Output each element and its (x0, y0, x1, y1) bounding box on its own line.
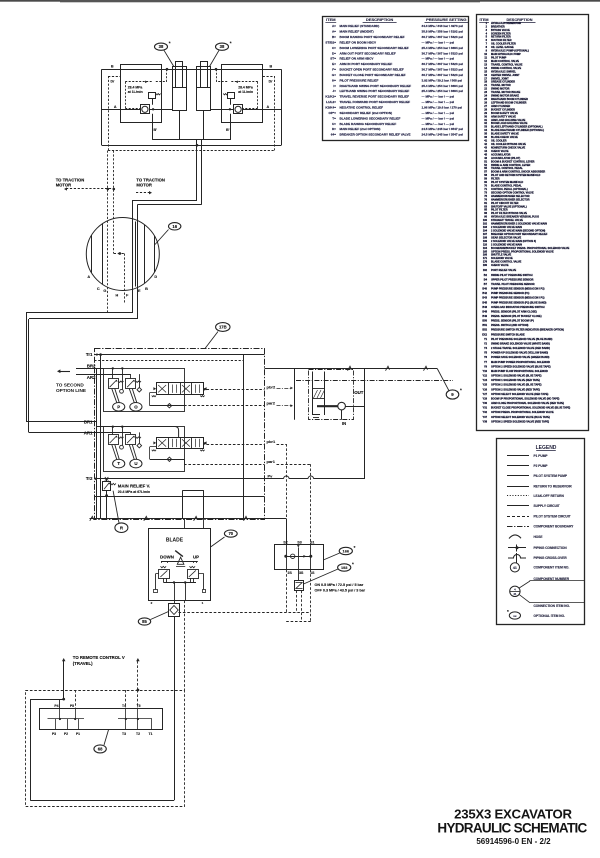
svg-text:SWING PILOT PRESSURE SWITCH: SWING PILOT PRESSURE SWITCH (491, 274, 533, 277)
svg-text:(TRAVEL): (TRAVEL) (73, 661, 93, 666)
svg-text:PIPING CROSS-OVER: PIPING CROSS-OVER (534, 556, 568, 560)
Pv supply wire (94, 478, 283, 480)
svg-text:RELIEF ON ARM HBCV: RELIEF ON ARM HBCV (340, 57, 375, 61)
svg-text:Y10: Y10 (483, 370, 488, 373)
svg-text:DOWN: DOWN (160, 554, 174, 559)
svg-text:TO SECOND: TO SECOND (56, 383, 84, 388)
svg-text:PILOT PRESSURE RELIEF: PILOT PRESSURE RELIEF (340, 78, 379, 82)
svg-text:41: 41 (513, 592, 517, 596)
left supply rails (100, 355, 102, 519)
svg-text:OPTION 1 SOLENOID VALVE (RED T: OPTION 1 SOLENOID VALVE (RED TAPE) (491, 379, 540, 382)
item oval 166 (323, 553, 339, 560)
svg-text:I=: I= (333, 84, 336, 88)
svg-text:C=: C= (332, 46, 336, 50)
svg-text:28.4 MPa: 28.4 MPa (238, 85, 253, 89)
svg-text:Y38: Y38 (483, 420, 488, 423)
counterbalance check valve left (141, 105, 150, 114)
svg-text:BOOM LOWERING PORT SECONDARY R: BOOM LOWERING PORT SECONDARY RELIEF (340, 46, 409, 50)
svg-text:P4: P4 (54, 704, 58, 708)
scan border top edge (0, 0, 600, 2)
svg-text:OUT: OUT (354, 390, 364, 395)
svg-text:25.4 MPa / 254 bar / 3684 psi: 25.4 MPa / 254 bar / 3684 psi (422, 46, 464, 50)
svg-text:EX2: EX2 (482, 333, 487, 336)
BR2 wire (76, 368, 104, 370)
svg-text:POWER-UP SOLENOID VALVE (YELLO: POWER-UP SOLENOID VALVE (YELLOW BAND) (491, 352, 548, 355)
svg-text:at 1L/min: at 1L/min (238, 90, 253, 94)
svg-text:P1: P1 (76, 732, 80, 736)
svg-text:J=: J= (332, 89, 336, 93)
svg-text:NEGATIVE CONTROL RELIEF: NEGATIVE CONTROL RELIEF (340, 106, 384, 110)
svg-text:K3/K4=: K3/K4= (325, 106, 336, 110)
svg-text:SWING BRAKE SOLENOID VALVE (WH: SWING BRAKE SOLENOID VALVE (WHITE BAND) (491, 342, 550, 345)
svg-text:A=: A= (332, 30, 336, 34)
svg-text:PRESS. SENSOR (PILOT BUCKET CL: PRESS. SENSOR (PILOT BUCKET CLOSE) (491, 315, 542, 318)
svg-text:AR2: AR2 (87, 375, 96, 380)
par pilot line group 1 (150, 446, 156, 448)
svg-text:36.7 MPa / 367 bar / 5323 psi: 36.7 MPa / 367 bar / 5323 psi (422, 68, 464, 72)
svg-text:par1: par1 (267, 459, 276, 464)
svg-text:3S: 3S (299, 571, 304, 575)
svg-text:F=: F= (332, 68, 336, 72)
svg-text:xx: xx (513, 614, 517, 618)
port B' wire left (152, 123, 154, 140)
svg-text:--- MPa / --- bar / --- psi: --- MPa / --- bar / --- psi (422, 122, 455, 126)
svg-text:L1/L2=: L1/L2= (326, 100, 336, 104)
directional spool group 2 (157, 383, 204, 395)
svg-text:PUMP PRESSURE SENSOR (MEGACON: PUMP PRESSURE SENSOR (MEGACON / P2) (491, 288, 545, 291)
svg-text:ST=: ST= (330, 57, 336, 61)
valve section group 2 sub-box (104, 369, 185, 412)
svg-text:AR1: AR1 (84, 430, 93, 435)
svg-text:PRESSURE SWITCH FILTER INDICAT: PRESSURE SWITCH FILTER INDICATOR (BREAKE… (491, 329, 564, 332)
svg-text:ARM IN PORT SECONDARY RELIEF: ARM IN PORT SECONDARY RELIEF (340, 62, 393, 66)
svg-text:MAIN RELIEF (INDENT): MAIN RELIEF (INDENT) (340, 30, 374, 34)
svg-text:E=: E= (332, 62, 336, 66)
svg-text:PUMP PRESSURE SENSOR (P2) (BLU: PUMP PRESSURE SENSOR (P2) (BLUE BAND) (491, 301, 547, 304)
component boundary line (296, 380, 453, 382)
svg-text:38: 38 (159, 44, 164, 49)
svg-text:T: T (117, 461, 120, 466)
par1 pilot line (184, 459, 186, 464)
svg-text:par2: par2 (267, 401, 276, 406)
svg-text:UP: UP (193, 554, 199, 559)
svg-text:41: 41 (513, 566, 517, 570)
svg-text:D: D (154, 275, 157, 279)
svg-text:RELIEF ON BOOM HBCV: RELIEF ON BOOM HBCV (340, 40, 378, 44)
svg-text:BREAKER OPTION SECONDARY RELIE: BREAKER OPTION SECONDARY RELIEF VALVE (340, 133, 411, 137)
B-prime cross wire (152, 139, 231, 141)
svg-text:PRESS. SENSOR (PILOT ARM CLOSE: PRESS. SENSOR (PILOT ARM CLOSE) (491, 310, 537, 313)
svg-text:28.4 MPa: 28.4 MPa (128, 85, 143, 89)
svg-text:RETURN TO RESERVOIR: RETURN TO RESERVOIR (534, 484, 573, 488)
feeds (112, 427, 114, 435)
svg-text:U: U (134, 461, 137, 466)
pressure settings table (323, 17, 469, 141)
svg-text:166: 166 (343, 548, 350, 553)
svg-text:56914596-0 EN - 2/2: 56914596-0 EN - 2/2 (476, 837, 551, 846)
svg-text:*: * (230, 41, 232, 46)
feeds (112, 368, 114, 378)
svg-text:24.5 MPa / 245 bar / 3547 psi: 24.5 MPa / 245 bar / 3547 psi (422, 133, 464, 137)
svg-text:PRESSURE SETTING: PRESSURE SETTING (426, 17, 466, 22)
wires swivel to valve block (26, 312, 132, 314)
svg-text:POWER SAVE SOLENOID VALVE (GRE: POWER SAVE SOLENOID VALVE (GREEN BAND) (491, 356, 550, 359)
svg-text:B40: B40 (482, 288, 487, 291)
lever port O (129, 389, 134, 403)
svg-text:B43: B43 (482, 297, 487, 300)
BR1 wire (94, 421, 97, 423)
svg-text:36.7 MPa / 367 bar / 5323 psi: 36.7 MPa / 367 bar / 5323 psi (422, 35, 464, 39)
svg-text:CHECK VALVE: CHECK VALVE (491, 264, 509, 267)
travel motor right sub-box (222, 65, 263, 123)
svg-text:BLADE LOWERING SECONDARY RELIE: BLADE LOWERING SECONDARY RELIEF (340, 116, 401, 120)
svg-text:Dr: Dr (269, 80, 274, 84)
svg-text:PILOT SYSTEM CIRCUIT: PILOT SYSTEM CIRCUIT (534, 514, 571, 518)
svg-text:2 STAGE TRAVEL SOLENOID VALVE: 2 STAGE TRAVEL SOLENOID VALVE (RED BAND) (491, 347, 550, 350)
hydraulic swivel 16 (86, 218, 159, 291)
svg-text:PRESS. SWITCH (2ND OPTION): PRESS. SWITCH (2ND OPTION) (491, 324, 529, 327)
svg-text:MAIN PUMP FLOW PROPORTIONAL SO: MAIN PUMP FLOW PROPORTIONAL SOLENOID (491, 370, 548, 373)
svg-text:T=: T= (332, 116, 336, 120)
svg-text:PRESSURE SWITCH BLADE: PRESSURE SWITCH BLADE (491, 333, 525, 336)
svg-text:PILOT PRESSURE SOLENOID VALVE: PILOT PRESSURE SOLENOID VALVE (BLUE BAND… (491, 338, 552, 341)
svg-text:CONNECTION ITEM NO.: CONNECTION ITEM NO. (534, 604, 571, 608)
svg-text:Y25: Y25 (483, 384, 488, 387)
svg-text:BR2: BR2 (87, 363, 96, 368)
svg-text:Y27: Y27 (483, 393, 488, 396)
left cylinder (38) (173, 67, 187, 111)
svg-text:P3: P3 (52, 732, 56, 736)
svg-text:Y30: Y30 (483, 402, 488, 405)
svg-text:G: G (103, 289, 106, 293)
svg-text:BUCKET CLOSE PROPORTIONAL SOLE: BUCKET CLOSE PROPORTIONAL SOLENOID VALVE… (491, 407, 570, 410)
AR2 wire (76, 374, 104, 376)
svg-text:OVERLOAD INDICATOR PRESSURE SW: OVERLOAD INDICATOR PRESSURE SWITCH (491, 306, 545, 309)
svg-text:A: A (114, 105, 117, 109)
item oval 68 (104, 730, 109, 746)
svg-text:85: 85 (142, 619, 147, 624)
svg-text:MOTOR: MOTOR (56, 182, 72, 187)
item oval 193 (304, 569, 339, 584)
svg-text:Y32: Y32 (483, 411, 488, 414)
directional spool group 1 (157, 438, 204, 449)
svg-text:B': B' (226, 128, 230, 132)
right rail (243, 355, 245, 519)
par2 pilot line (184, 405, 265, 407)
dashed drain boundary (108, 76, 110, 151)
svg-text:TO REMOTE CONTROL V: TO REMOTE CONTROL V (73, 655, 125, 660)
svg-text:P5: P5 (70, 704, 74, 708)
svg-text:MAIN RELIEF (STANDARD): MAIN RELIEF (STANDARD) (340, 24, 380, 28)
par pilot line group 2 (150, 392, 156, 394)
svg-text:T1: T1 (149, 732, 153, 736)
title block (437, 807, 587, 846)
svg-text:Tr2: Tr2 (86, 476, 93, 481)
svg-text:OPTION SELECT SOLENOID VALVE (: OPTION SELECT SOLENOID VALVE (BLUE TAPE) (491, 416, 550, 419)
travel pilot manifold 68 (40, 709, 163, 730)
svg-text:35.8 MPa / 358 bar / 5192 psi: 35.8 MPa / 358 bar / 5192 psi (422, 30, 464, 34)
relief valve right (228, 93, 235, 99)
svg-text:--- MPa / --- bar / --- psi: --- MPa / --- bar / --- psi (422, 57, 455, 61)
svg-text:17B: 17B (219, 325, 227, 330)
svg-text:LEAK-OFF RETURN: LEAK-OFF RETURN (534, 494, 565, 498)
svg-text:B: B (111, 65, 114, 69)
main control valve boundary 17B (95, 349, 265, 520)
svg-text:ARM OUT PORT SECONDARY RELIEF: ARM OUT PORT SECONDARY RELIEF (340, 51, 396, 55)
svg-text:1.96 MPa / 19.6 bar / 270 psi: 1.96 MPa / 19.6 bar / 270 psi (422, 106, 463, 110)
relief valve left (149, 93, 156, 99)
svg-text:UPPER PILOT PRESSURE SENSOR: UPPER PILOT PRESSURE SENSOR (491, 278, 534, 281)
svg-text:36.7 MPa / 367 bar / 5323 psi: 36.7 MPa / 367 bar / 5323 psi (422, 51, 464, 55)
svg-text:B: B (145, 287, 148, 291)
Tr1 wire (94, 354, 264, 356)
inner relief dashed box left (125, 82, 127, 108)
svg-text:A=: A= (332, 24, 336, 28)
svg-text:3.92 MPa / 39.2 bar / 568 psi: 3.92 MPa / 39.2 bar / 568 psi (422, 78, 463, 82)
svg-text:OPTION 2 SPEED SOLENOID VALVE: OPTION 2 SPEED SOLENOID VALVE (RED TAPE) (491, 420, 549, 423)
blade valve UP (188, 570, 199, 579)
item oval 9 (437, 369, 449, 391)
svg-text:2S: 2S (288, 571, 293, 575)
svg-text:OPTION LINE: OPTION LINE (56, 388, 86, 393)
svg-text:OPTIONAL ITEM NO.: OPTIONAL ITEM NO. (534, 614, 566, 618)
svg-text:Y22: Y22 (483, 375, 488, 378)
svg-text:COMPONENT BOUNDARY: COMPONENT BOUNDARY (534, 525, 575, 529)
svg-text:Dr: Dr (111, 80, 116, 84)
svg-text:PUMP PRESSURE SENSOR (P1): PUMP PRESSURE SENSOR (P1) (491, 292, 529, 295)
svg-text:SECONDARY RELIEF (2nd OPTION): SECONDARY RELIEF (2nd OPTION) (340, 111, 393, 115)
svg-text:A: A (267, 105, 270, 109)
travel motor assembly boundary (102, 69, 282, 71)
svg-text:BLADE RAISING SECONDARY RELIEF: BLADE RAISING SECONDARY RELIEF (340, 122, 397, 126)
svg-text:64=: 64= (331, 133, 336, 137)
svg-text:B48: B48 (482, 310, 487, 313)
pressure switch 193 (295, 581, 304, 591)
svg-text:--- MPa / --- bar / --- psi: --- MPa / --- bar / --- psi (422, 95, 455, 99)
svg-text:SUPPLY CIRCUIT: SUPPLY CIRCUIT (534, 504, 560, 508)
main relief valve R (103, 482, 111, 491)
lever port T (112, 445, 117, 460)
svg-text:ST/B2=: ST/B2= (325, 40, 336, 44)
svg-text:B': B' (154, 128, 158, 132)
svg-text:B: B (270, 65, 273, 69)
svg-text:PUMP PRESSURE SENSOR (MEGACON: PUMP PRESSURE SENSOR (MEGACON / P1) (491, 297, 545, 300)
svg-text:TRAVEL FORWARD PORT SECONDARY: TRAVEL FORWARD PORT SECONDARY RELIEF (340, 100, 411, 104)
svg-text:BUCKET OPEN PORT SECONDARY REL: BUCKET OPEN PORT SECONDARY RELIEF (340, 68, 404, 72)
svg-text:T2: T2 (136, 732, 140, 736)
svg-text:BOOM UP PROPORTIONAL SOLENOID: BOOM UP PROPORTIONAL SOLENOID VALVE (NO … (491, 397, 560, 400)
svg-text:IN: IN (342, 421, 346, 426)
item oval 38 right (210, 50, 220, 66)
svg-text:180: 180 (483, 264, 488, 267)
tank return wire (90, 518, 287, 520)
svg-text:BOOM RAISING PORT SECONDARY RE: BOOM RAISING PORT SECONDARY RELIEF (340, 35, 405, 39)
svg-text:BLADE: BLADE (166, 537, 184, 543)
svg-text:B52: B52 (482, 329, 487, 332)
swivel pilot U-channel (114, 253, 125, 255)
svg-text:--- MPa / --- bar / --- psi: --- MPa / --- bar / --- psi (422, 100, 455, 104)
svg-text:235X3 EXCAVATOR: 235X3 EXCAVATOR (454, 807, 572, 822)
svg-text:ITEM: ITEM (326, 17, 336, 22)
svg-text:B42: B42 (482, 292, 487, 295)
svg-text:68: 68 (98, 746, 103, 751)
svg-text:34.3 MPa / 343 bar / 4973 psi: 34.3 MPa / 343 bar / 4973 psi (422, 24, 464, 28)
svg-text:16: 16 (172, 224, 177, 229)
pilot dashed network under 193 (286, 570, 288, 613)
svg-text:LEFTHAND SWING PORT SECONDARY: LEFTHAND SWING PORT SECONDARY RELIEF (340, 89, 410, 93)
svg-text:MOTOR: MOTOR (136, 182, 152, 187)
pbr1 pilot line (207, 444, 265, 446)
svg-text:Y37: Y37 (483, 416, 488, 419)
svg-text:Pv: Pv (268, 473, 274, 478)
svg-text:COMPONENT ITEM NO.: COMPONENT ITEM NO. (534, 566, 570, 570)
AR1 wire (94, 432, 103, 434)
svg-text:S2: S2 (283, 540, 287, 544)
svg-text:OPTION SELECT SOLENOID VALVE (: OPTION SELECT SOLENOID VALVE (RED TAPE) (491, 393, 549, 396)
svg-text:pbr1: pbr1 (267, 439, 276, 444)
svg-text:Tr1: Tr1 (86, 352, 93, 357)
svg-text:TRAVEL REVERSE PORT SECONDARY: TRAVEL REVERSE PORT SECONDARY RELIEF (340, 95, 410, 99)
svg-text:--- MPa / --- bar / --- psi: --- MPa / --- bar / --- psi (422, 116, 455, 120)
return filter element (312, 372, 314, 416)
svg-text:OPTION 2 SOLENOID VALVE (BLUE: OPTION 2 SOLENOID VALVE (BLUE TAPE) (491, 384, 542, 387)
pilot filter 85 (169, 604, 180, 617)
blade plumbing (155, 573, 159, 575)
pilot reducing valve O (126, 379, 136, 389)
svg-text:E: E (138, 289, 141, 293)
pilot boundary dashed box (26, 691, 185, 807)
pilot pump boundary (309, 370, 354, 420)
item oval R (113, 491, 119, 523)
svg-text:MAIN RELIEF V.: MAIN RELIEF V. (118, 483, 150, 488)
svg-text:25.4 MPa / 254 bar / 3684 psi: 25.4 MPa / 254 bar / 3684 psi (422, 89, 464, 93)
svg-text:OPTION 1 SOLENOID VALVE (BLUE: OPTION 1 SOLENOID VALVE (BLUE TAPE) (491, 375, 542, 378)
svg-text:H=: H= (332, 78, 336, 82)
svg-text:*: * (352, 561, 354, 566)
svg-text:*: * (507, 609, 509, 614)
svg-text:B=: B= (332, 35, 336, 39)
svg-text:P1 PUMP: P1 PUMP (534, 454, 549, 458)
blade control pedal 70 (149, 529, 211, 601)
svg-text:B46: B46 (482, 306, 487, 309)
svg-text:70: 70 (228, 531, 233, 536)
svg-text:38: 38 (220, 44, 225, 49)
pilot pump circle (317, 405, 338, 407)
svg-text:pbr2: pbr2 (267, 384, 276, 389)
svg-text:*: * (460, 387, 462, 392)
valve section group 1 sub-box (104, 427, 185, 472)
svg-text:HYDRAULIC SCHEMATIC: HYDRAULIC SCHEMATIC (437, 821, 587, 836)
svg-text:at 1L/min: at 1L/min (128, 90, 143, 94)
right cylinder (38) (197, 67, 211, 111)
svg-text:C: C (97, 287, 100, 291)
item oval 85 (151, 612, 169, 620)
svg-text:Y24: Y24 (483, 379, 488, 382)
supply line to tank/reservoir 9 (265, 368, 438, 370)
feeds from valve block to blade (184, 519, 186, 529)
svg-text:OP*=: OP*= (329, 111, 337, 115)
blade valve DOWN (159, 570, 170, 579)
traction motor pilot lines (107, 151, 109, 314)
return rail (94, 496, 264, 498)
svg-text:25.4 MPa / 254 bar / 3684 psi: 25.4 MPa / 254 bar / 3684 psi (422, 84, 464, 88)
legend (497, 439, 585, 625)
svg-text:HOSE: HOSE (534, 535, 543, 539)
supply pair down to swivel (196, 140, 198, 201)
supply wire filter to manifold loop (174, 617, 176, 801)
pbr2 pilot line (207, 389, 265, 391)
inner relief dashed box right (257, 82, 259, 108)
svg-text:U=: U= (332, 122, 336, 126)
svg-text:ON 0.5 MPa / 72.5 psi / 5 bar: ON 0.5 MPa / 72.5 psi / 5 bar (315, 583, 364, 587)
svg-text:OPTION PRESS. PROPORTIONAL SOL: OPTION PRESS. PROPORTIONAL SOLENOID VALV… (491, 411, 554, 414)
svg-text:R=: R= (332, 127, 336, 131)
svg-text:P2 PUMP: P2 PUMP (534, 464, 549, 468)
item oval 70 (211, 537, 225, 547)
lever port U (129, 445, 134, 460)
svg-text:182: 182 (483, 269, 488, 272)
svg-text:P2: P2 (64, 732, 68, 736)
svg-text:B45: B45 (482, 301, 487, 304)
svg-text:24.5 MPa / 245 bar / 3547 psi: 24.5 MPa / 245 bar / 3547 psi (422, 127, 464, 131)
svg-text:Y26: Y26 (483, 388, 488, 391)
svg-text:OPTION 2 SOLENOID VALVE (RED T: OPTION 2 SOLENOID VALVE (RED TAPE) (491, 388, 540, 391)
svg-text:*: * (169, 41, 171, 46)
svg-text:PILOT SYSTEM PUMP: PILOT SYSTEM PUMP (534, 474, 568, 478)
counterbalance check valve right (234, 105, 243, 114)
svg-text:36.7 MPa / 367 bar / 5323 psi: 36.7 MPa / 367 bar / 5323 psi (422, 73, 464, 77)
svg-text:TRAVEL PILOT PRESSURE SENSOR: TRAVEL PILOT PRESSURE SENSOR (491, 283, 535, 286)
port B' wire right (230, 123, 232, 140)
svg-text:B51: B51 (482, 324, 487, 327)
svg-text:P: P (117, 404, 120, 409)
port A wire right (243, 109, 282, 111)
svg-text:ITEM: ITEM (479, 18, 488, 22)
travel motor left sub-box (121, 65, 162, 123)
svg-text:20.4 MPa at 67L/min: 20.4 MPa at 67L/min (118, 490, 150, 494)
svg-text:S3: S3 (297, 540, 301, 544)
svg-text:Y29: Y29 (483, 397, 488, 400)
legend items table (477, 15, 589, 431)
svg-text:36.7 MPa / 367 bar / 5323 psi: 36.7 MPa / 367 bar / 5323 psi (422, 62, 464, 66)
svg-text:Y31: Y31 (483, 407, 488, 410)
pedal pivot (161, 561, 198, 563)
group1 top rail (97, 426, 176, 428)
svg-text:B50: B50 (482, 320, 487, 323)
svg-text:D=: D= (332, 51, 336, 55)
svg-text:PIPING CONNECTION: PIPING CONNECTION (534, 546, 568, 550)
svg-text:*: * (354, 545, 356, 550)
second option valve 166 (275, 545, 324, 570)
pilot reducing valve U (126, 435, 136, 445)
pilot reducing valve P (109, 379, 119, 389)
svg-text:O: O (134, 404, 138, 409)
P-line riser (364, 369, 366, 479)
blade pilot drain dashed (184, 601, 186, 691)
svg-text:K1/K2=: K1/K2= (325, 95, 336, 99)
svg-text:--- MPa / --- bar / --- psi: --- MPa / --- bar / --- psi (422, 40, 455, 44)
svg-text:G=: G= (332, 73, 336, 77)
svg-text:A: A (87, 275, 90, 279)
item oval 16 (155, 230, 169, 245)
svg-text:T3: T3 (122, 732, 126, 736)
svg-text:BUCKET CLOSE PORT SECONDARY RE: BUCKET CLOSE PORT SECONDARY RELIEF (340, 73, 406, 77)
manifold internals (59, 709, 61, 719)
svg-text:PRESS. SENSOR (PILOT BOOM UP): PRESS. SENSOR (PILOT BOOM UP) (491, 320, 534, 323)
svg-text:OFF 0.3 MPa / 43.5 psi / 3 bar: OFF 0.3 MPa / 43.5 psi / 3 bar (315, 588, 366, 592)
pilot reducing valve T (109, 435, 119, 445)
svg-text:B49: B49 (482, 315, 487, 318)
